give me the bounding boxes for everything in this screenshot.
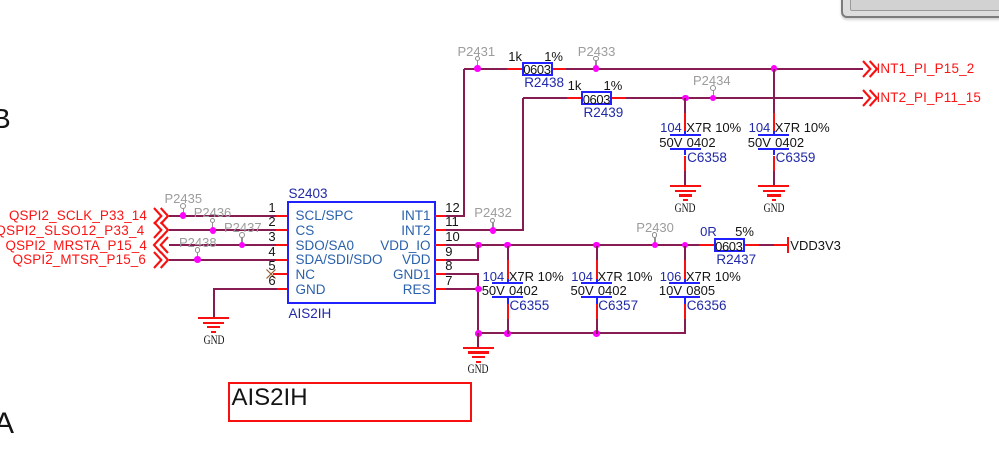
pin name INT2	[341, 224, 431, 238]
capacitor C6356	[669, 282, 700, 284]
value 50V 0402 of C6355	[482, 284, 538, 297]
pin number 10	[445, 230, 459, 243]
value 106 X7R 10% of C6356	[660, 270, 741, 283]
pin 12 stub	[435, 215, 447, 217]
resistor R2439 leads+body	[567, 97, 582, 99]
pin number 9	[445, 245, 452, 258]
net label INT1_PI_P15_2	[877, 62, 975, 75]
pin 10 stub	[435, 244, 447, 246]
value 50V 0402 of C6358	[659, 136, 715, 149]
pin number 11	[445, 215, 459, 228]
wire C6359 riser	[773, 69, 775, 113]
power symbol VDD3V3 bar	[787, 237, 789, 253]
pin 5 stub (NC)	[273, 273, 288, 275]
wire pin12 to riser	[446, 215, 465, 217]
ui panel fragment top-right outer	[841, 0, 999, 18]
ground symbol under C6359	[758, 185, 789, 187]
wire INT2 horizontal to port	[626, 97, 863, 99]
pin name SDO/SA0	[296, 239, 355, 253]
pin 2 stub	[276, 229, 287, 231]
value 104 X7R 10% of C6358	[660, 121, 741, 134]
wire C6358 to ground	[684, 156, 686, 171]
wire INT1 horizontal to port	[566, 68, 863, 70]
wire C6359 to ground	[773, 156, 775, 171]
pin 7 stub	[435, 288, 447, 290]
pin 3 stub	[276, 244, 287, 246]
refdes R2437	[716, 253, 756, 267]
power label VDD3V3	[790, 239, 841, 252]
port chevron QSPI2_MTSR	[153, 251, 169, 269]
test point P2437	[224, 221, 262, 234]
test point P2433	[578, 45, 616, 58]
value 104 X7R 10% of C6355	[483, 270, 564, 283]
pin number 12	[445, 201, 459, 214]
part name AIS2IH under box	[289, 307, 332, 321]
test point P2434	[693, 74, 731, 87]
capacitor C6359	[758, 134, 789, 136]
junction rail/C6356	[682, 242, 689, 249]
pin name VDD_IO	[341, 239, 431, 253]
refdes C6359	[776, 151, 816, 165]
value 1k of R2439	[568, 79, 582, 92]
pin number 2	[252, 215, 276, 228]
junction pin7/ground riser	[475, 286, 482, 293]
refdes C6357	[598, 299, 638, 313]
no-connect X on pin 5	[266, 269, 276, 279]
capacitor C6357	[581, 282, 612, 284]
pin name INT1	[341, 209, 431, 223]
pin 1 stub	[276, 215, 287, 217]
port chevron INT2	[862, 89, 878, 107]
wire R2437 to VDD3V3	[759, 244, 775, 246]
net label INT2_PI_P11_15	[877, 91, 982, 104]
refdes C6355	[510, 299, 550, 313]
refdes R2438	[524, 76, 564, 90]
value 10V 0805 of C6356	[659, 284, 715, 297]
wire INT1 top horizontal left	[464, 68, 508, 70]
net label QSPI2_MRSTA_P15_4	[0, 239, 147, 252]
test point P2435	[165, 192, 203, 205]
net label QSPI2_MTSR_P15_6	[0, 253, 146, 266]
grid row label A	[0, 409, 14, 439]
junction gnd rail left	[475, 330, 482, 337]
pin number 7	[445, 274, 452, 287]
port chevron INT1	[862, 60, 878, 78]
wire MRSTA to pin3	[169, 244, 278, 246]
pin name VDD	[341, 253, 431, 267]
wire pin6 to ground	[214, 288, 278, 290]
wire riser INT2	[522, 98, 524, 232]
pin 4 stub	[276, 259, 287, 261]
pin number 5	[252, 259, 276, 272]
junction rail/C6357	[593, 242, 600, 249]
wire C6355 bottom lead	[507, 304, 509, 319]
value 0R of R2437	[700, 225, 717, 238]
port chevron QSPI2_SCLK	[153, 207, 169, 225]
wire pin9 riser	[477, 245, 479, 260]
test point P2431	[458, 45, 496, 58]
test point P2438	[179, 236, 217, 249]
value 1k of R2438	[508, 50, 522, 63]
pin 11 stub	[435, 229, 447, 231]
capacitor C6358	[670, 134, 701, 136]
capacitor C6355	[492, 282, 523, 284]
value 104 X7R 10% of C6357	[571, 270, 652, 283]
grid row label B	[0, 105, 11, 133]
wire pin7 RES	[446, 288, 479, 290]
pin number 6	[252, 274, 276, 287]
net label QSPI2_SLSO12_P33_4	[0, 224, 145, 237]
net label QSPI2_SCLK_P33_14	[0, 209, 147, 222]
wire gnd rail to symbol	[477, 333, 479, 348]
junction rail/C6355	[504, 242, 511, 249]
junction gnd rail/C6357	[593, 330, 600, 337]
pin 6 stub	[276, 288, 287, 290]
pin name SDA/SDI/SDO	[296, 253, 383, 267]
junction INT1/C6359 riser	[771, 65, 778, 72]
wire C6357 top lead	[596, 246, 598, 261]
refdes C6356	[687, 299, 727, 313]
sheet function label AIS2IH	[232, 386, 308, 410]
resistor R2437 leads+body	[699, 244, 714, 246]
junction INT2/C6358 riser	[682, 95, 689, 102]
tolerance 5% of R2437	[735, 225, 754, 238]
pin name RES	[341, 283, 431, 297]
wire C6356 bottom lead	[684, 304, 686, 319]
wire SCLK to pin1	[169, 215, 278, 217]
pin name CS	[296, 224, 315, 238]
wire pin10 VDD rail	[446, 244, 700, 246]
pin name GND1	[341, 268, 431, 282]
test point P2430	[636, 221, 674, 234]
value 50V 0402 of C6357	[571, 284, 627, 297]
pin number 4	[252, 245, 276, 258]
wire ground rail	[478, 332, 686, 334]
pin name SCL/SPC	[296, 209, 354, 223]
value 50V 0402 of C6359	[748, 136, 804, 149]
refdes R2439	[584, 106, 624, 120]
test point P2436	[194, 206, 232, 219]
wire C6356 top lead	[684, 246, 686, 261]
pin name GND	[296, 283, 326, 297]
value 104 X7R 10% of C6359	[749, 121, 830, 134]
resistor R2438 leads+body	[507, 68, 522, 70]
pin 8 stub	[435, 273, 447, 275]
wire INT2 to R2439	[523, 97, 568, 99]
wire C6357 bottom lead	[596, 304, 598, 319]
pin name NC	[296, 268, 316, 282]
ground symbol below IC	[198, 317, 229, 319]
wire pin11 to riser	[446, 229, 524, 231]
junction rail/pin9 riser	[475, 242, 482, 249]
test point P2432	[474, 206, 512, 219]
wire C6355 top lead	[507, 246, 509, 261]
op-amp/IC S2403 box	[287, 201, 436, 304]
pin number 1	[252, 201, 276, 214]
refdes C6358	[687, 151, 727, 165]
pin 9 stub	[435, 259, 447, 261]
wire SLSO12 to pin2	[169, 229, 278, 231]
wire C6358 riser	[684, 98, 686, 113]
wire MTSR to pin4	[169, 259, 278, 261]
tolerance 1% of R2438	[544, 50, 563, 63]
pin number 3	[252, 230, 276, 243]
ground symbol under rail	[463, 347, 494, 349]
junction gnd rail/C6355	[504, 330, 511, 337]
ui panel fragment top-right inner	[850, 0, 999, 11]
wire riser INT1	[463, 69, 465, 217]
port chevron QSPI2_SLSO12	[153, 221, 169, 239]
wire pin8 GND1	[446, 273, 479, 275]
refdes S2403	[289, 187, 328, 201]
port chevron QSPI2_MRSTA (input)	[153, 236, 169, 254]
ground symbol under C6358	[670, 185, 701, 187]
tolerance 1% of R2439	[604, 79, 623, 92]
pin number 8	[445, 259, 452, 272]
sheet function box AIS2IH	[228, 382, 472, 423]
